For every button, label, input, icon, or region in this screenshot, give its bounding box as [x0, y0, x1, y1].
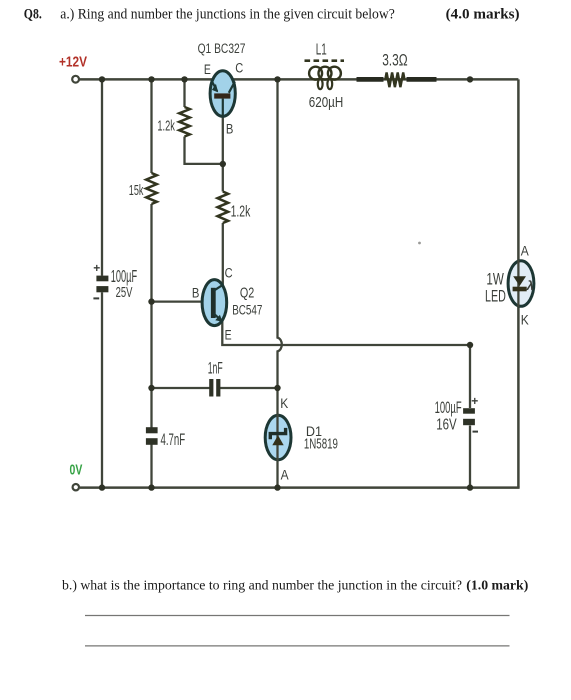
- svg-text:16V: 16V: [436, 417, 457, 434]
- transistor Q1 emitter diagonal with arrow: [211, 80, 217, 91]
- resistor 15k zigzag: [146, 173, 157, 204]
- transistor Q1 base lead inside: [222, 99, 224, 117]
- junction node bottom-D1: [274, 484, 280, 490]
- junction node bottom-C4: [467, 484, 473, 490]
- svg-text:1N5819: 1N5819: [304, 437, 338, 453]
- wire 1.2k R1 branch: [183, 79, 185, 107]
- svg-text:25V: 25V: [116, 285, 133, 301]
- capacitor 1nF plate right: [216, 379, 220, 397]
- svg-text:B: B: [226, 122, 234, 137]
- resistor R2 1.2k zigzag: [218, 192, 229, 224]
- transistor Q1 BC327 body: [210, 71, 235, 117]
- svg-text:C: C: [235, 61, 243, 76]
- wire 1nF link left: [152, 387, 210, 389]
- wire 15k to base node to 4.7nF: [150, 204, 152, 428]
- svg-text:1.2k: 1.2k: [157, 118, 175, 135]
- LED cathode bar: [513, 287, 527, 292]
- svg-text:Q8.: Q8.: [24, 7, 42, 23]
- LED anode triangle: [513, 276, 526, 286]
- wire Q2 base from node B: [152, 300, 204, 302]
- svg-text:b.) what is the importance to: b.) what is the importance to ring and n…: [62, 577, 528, 592]
- wire 1nF link right: [217, 387, 278, 389]
- junction node 1nF-center: [274, 385, 280, 391]
- svg-text:1.2k: 1.2k: [231, 204, 251, 221]
- wire 1.2k R1 bottom jog to Q1 base: [185, 137, 223, 164]
- svg-text:620µH: 620µH: [309, 95, 343, 111]
- svg-text:B: B: [192, 286, 200, 301]
- junction node rail-15k: [148, 76, 154, 82]
- resistor R1 1.2k zigzag: [179, 107, 190, 137]
- junction node bottom-4.7nF: [148, 484, 154, 490]
- svg-text:a.) Ring and number the juncti: a.) Ring and number the junctions in the…: [60, 7, 395, 23]
- svg-text:100µF: 100µF: [435, 399, 462, 417]
- LED wire through body: [517, 260, 519, 307]
- junction node rail-C1: [99, 76, 105, 82]
- resistor 3.3ohm zigzag: [385, 73, 404, 88]
- answer line 2: [85, 645, 510, 647]
- inductor L1 dashed core line: [305, 59, 345, 62]
- capacitor C1 minus sign: [93, 297, 99, 299]
- resistor 3.3ohm thick lead left: [357, 77, 384, 82]
- wire C4 to bottom rail: [469, 426, 471, 488]
- capacitor C4 minus sign: [473, 431, 479, 433]
- capacitor C1 plate bottom: [96, 286, 108, 292]
- wire C4 100uF 16V branch: [469, 345, 471, 408]
- junction node rail-R1: [181, 76, 187, 82]
- svg-text:L1: L1: [316, 41, 327, 58]
- svg-text:K: K: [280, 396, 288, 411]
- wire Q2 emitter down and right to output node: [222, 319, 470, 346]
- svg-text:A: A: [281, 468, 289, 483]
- svg-text:3.3Ω: 3.3Ω: [382, 52, 407, 70]
- capacitor C4 plate bottom: [463, 419, 475, 425]
- transistor Q1 collector diagonal: [229, 82, 235, 93]
- inductor L1 return loops: [318, 79, 323, 89]
- svg-text:BC547: BC547: [232, 302, 262, 318]
- svg-text:100µF: 100µF: [111, 266, 137, 286]
- wire 1.2k R2 to Q2 collector: [222, 223, 224, 287]
- wire 15k branch: [150, 79, 152, 173]
- svg-text:15k: 15k: [129, 183, 144, 199]
- svg-text:1nF: 1nF: [208, 358, 223, 377]
- svg-text:C: C: [225, 265, 233, 280]
- 0V terminal: [73, 484, 79, 490]
- wire 4.7nF to 0V: [150, 445, 152, 488]
- wire bottom rail 0V: [80, 486, 520, 489]
- transistor Q2 emitter diagonal with arrow: [214, 314, 220, 319]
- capacitor C1 plate top: [96, 276, 108, 282]
- svg-text:A: A: [521, 244, 529, 259]
- capacitor 1nF plate left: [209, 379, 213, 397]
- svg-text:E: E: [225, 328, 232, 343]
- diode D1 anode triangle: [272, 435, 283, 445]
- answer line 1: [85, 615, 510, 617]
- scan speck: [418, 242, 421, 245]
- transistor Q2 base bar: [211, 288, 216, 318]
- svg-text:1W: 1W: [486, 271, 504, 289]
- svg-text:Q1 BC327: Q1 BC327: [198, 41, 246, 57]
- diode D1 body: [265, 415, 291, 459]
- junction node rail-C4: [467, 76, 473, 82]
- wire center vertical with hop over emitter wire: [278, 79, 282, 487]
- wire C1 branch lower: [101, 292, 103, 487]
- LED body: [508, 261, 534, 307]
- +12V terminal: [72, 76, 79, 83]
- transistor Q2 BC547 body: [202, 280, 227, 326]
- wire C1 branch upper: [101, 79, 103, 275]
- svg-text:E: E: [204, 62, 211, 77]
- junction node rail-center: [274, 76, 280, 82]
- wire top rail +12V: [79, 78, 518, 81]
- svg-text:+: +: [93, 261, 100, 275]
- svg-text:0V: 0V: [70, 463, 83, 479]
- transistor Q2 collector diagonal: [214, 285, 223, 291]
- junction node emitter-C4: [467, 342, 473, 348]
- wire Q1 base down to 1.2k R2: [222, 117, 224, 192]
- resistor 3.3ohm thick lead right: [407, 77, 437, 82]
- junction node 1nF-left: [148, 385, 154, 391]
- transistor Q1 base bar: [214, 93, 230, 98]
- diode D1 schottky cathode bar: [270, 428, 285, 439]
- inductor L1 coil: [309, 67, 322, 80]
- capacitor 4.7nF plate top: [146, 427, 158, 433]
- svg-text:Q2: Q2: [240, 285, 254, 302]
- svg-text:λ: λ: [526, 278, 534, 293]
- svg-text:+12V: +12V: [59, 54, 87, 70]
- wire right vertical LED branch: [517, 79, 520, 487]
- junction node B base: [148, 298, 154, 304]
- svg-text:LED: LED: [485, 287, 506, 305]
- svg-text:(4.0 marks): (4.0 marks): [446, 7, 520, 23]
- capacitor C4 plate top: [463, 408, 475, 414]
- capacitor 4.7nF plate bottom: [146, 438, 158, 445]
- junction node R1-Q1base: [220, 161, 226, 167]
- svg-text:4.7nF: 4.7nF: [161, 430, 186, 449]
- junction node bottom-C1: [99, 484, 105, 490]
- svg-text:+: +: [471, 394, 478, 408]
- svg-text:K: K: [521, 313, 529, 328]
- diode D1 wire through body: [276, 414, 278, 461]
